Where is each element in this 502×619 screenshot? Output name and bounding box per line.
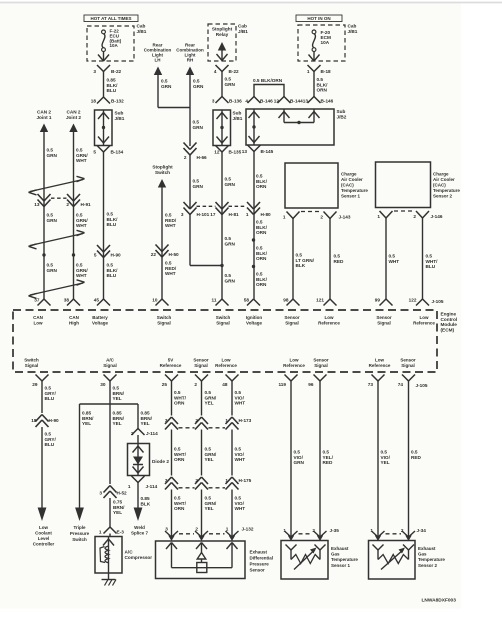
svg-text:H-90: H-90 [111, 252, 122, 257]
svg-text:B-132: B-132 [111, 99, 124, 104]
svg-text:J/B1: J/B1 [233, 116, 243, 121]
svg-text:1: 1 [283, 528, 286, 533]
svg-text:J/B1: J/B1 [348, 29, 358, 34]
svg-text:1: 1 [307, 69, 310, 74]
svg-text:5: 5 [94, 252, 97, 257]
svg-text:25: 25 [162, 382, 168, 387]
svg-text:J/B1: J/B1 [115, 116, 125, 121]
svg-text:GRN: GRN [294, 460, 305, 465]
svg-text:BLU: BLU [107, 88, 117, 93]
svg-text:Temperature: Temperature [341, 188, 368, 193]
svg-text:B-146: B-146 [260, 99, 273, 104]
svg-text:Reference: Reference [318, 320, 340, 325]
svg-text:Temperature: Temperature [418, 557, 445, 562]
svg-text:H-91: H-91 [81, 202, 92, 207]
svg-text:Gas: Gas [418, 552, 427, 557]
svg-text:HOT AT ALL TIMES: HOT AT ALL TIMES [91, 16, 132, 21]
svg-text:Voltage: Voltage [92, 320, 108, 325]
svg-text:Joint 2: Joint 2 [66, 115, 81, 120]
svg-text:J/B1: J/B1 [137, 29, 147, 34]
svg-text:Air Cooler: Air Cooler [341, 177, 363, 182]
svg-text:GRN: GRN [193, 184, 204, 189]
svg-text:Low: Low [39, 525, 48, 530]
svg-text:GRN: GRN [47, 153, 58, 158]
svg-text:BLK: BLK [141, 501, 151, 506]
svg-text:Sensor: Sensor [250, 567, 266, 572]
svg-text:29: 29 [32, 382, 38, 387]
svg-text:3: 3 [181, 212, 184, 217]
svg-text:Charge: Charge [341, 172, 357, 177]
svg-text:ORN: ORN [174, 506, 185, 511]
svg-text:1: 1 [225, 478, 228, 483]
svg-text:1: 1 [377, 214, 380, 219]
svg-text:38: 38 [64, 297, 70, 302]
svg-text:GRN: GRN [225, 82, 236, 87]
svg-text:1: 1 [128, 484, 131, 489]
svg-text:2: 2 [195, 527, 198, 532]
svg-text:Exhaust: Exhaust [331, 546, 349, 551]
svg-text:WHT: WHT [76, 273, 87, 278]
svg-text:ORN: ORN [256, 282, 267, 287]
svg-text:YEL: YEL [205, 401, 214, 406]
svg-text:J-105: J-105 [432, 299, 444, 304]
svg-text:3: 3 [212, 99, 215, 104]
svg-text:Relay: Relay [216, 32, 229, 37]
svg-text:YEL: YEL [381, 460, 390, 465]
svg-text:Controller: Controller [33, 542, 55, 547]
svg-text:GRN: GRN [193, 84, 204, 89]
svg-text:37: 37 [34, 297, 40, 302]
svg-text:18: 18 [31, 418, 37, 423]
svg-text:1: 1 [99, 530, 102, 535]
svg-text:J/B2: J/B2 [337, 114, 347, 119]
svg-text:1: 1 [370, 528, 373, 533]
svg-text:Sensor 1: Sensor 1 [331, 563, 351, 568]
svg-text:J-114: J-114 [146, 431, 158, 436]
svg-text:Low: Low [34, 320, 43, 325]
svg-text:45: 45 [94, 297, 100, 302]
svg-text:30: 30 [100, 382, 106, 387]
svg-text:H-66: H-66 [197, 155, 208, 160]
svg-text:Sensor 1: Sensor 1 [341, 194, 361, 199]
svg-text:10: 10 [152, 297, 158, 302]
svg-text:Signal: Signal [194, 363, 208, 368]
svg-text:YEL: YEL [205, 506, 214, 511]
svg-text:YEL: YEL [82, 421, 91, 426]
svg-text:Triple: Triple [73, 525, 86, 530]
svg-text:ORN: ORN [174, 401, 185, 406]
svg-text:96: 96 [308, 382, 314, 387]
svg-text:LH: LH [155, 58, 161, 63]
svg-text:58: 58 [244, 297, 250, 302]
svg-text:Exhaust: Exhaust [250, 550, 268, 555]
svg-text:YEL: YEL [205, 457, 214, 462]
svg-text:B-136: B-136 [229, 99, 242, 104]
svg-text:Air Cooler: Air Cooler [433, 177, 455, 182]
svg-text:Signal: Signal [157, 320, 171, 325]
svg-text:LNWA8DXF003: LNWA8DXF003 [422, 598, 457, 604]
svg-text:B-134: B-134 [111, 149, 124, 154]
svg-text:(ECM): (ECM) [441, 327, 455, 332]
svg-text:122: 122 [409, 297, 417, 302]
svg-text:YEL: YEL [113, 510, 122, 515]
svg-text:2: 2 [131, 431, 134, 436]
svg-text:J-105: J-105 [416, 383, 428, 388]
svg-text:WHT: WHT [76, 223, 87, 228]
svg-text:3: 3 [93, 69, 96, 74]
svg-text:Voltage: Voltage [246, 320, 262, 325]
svg-text:13: 13 [242, 149, 248, 154]
svg-text:0.5 BLK/ORN: 0.5 BLK/ORN [253, 78, 283, 83]
svg-text:22: 22 [151, 252, 157, 257]
svg-text:Level: Level [38, 536, 50, 541]
svg-text:BLU: BLU [45, 442, 55, 447]
svg-text:48: 48 [222, 382, 228, 387]
svg-text:RED: RED [323, 460, 334, 465]
svg-text:1: 1 [226, 527, 229, 532]
svg-text:BLU: BLU [107, 273, 117, 278]
svg-text:YEL: YEL [113, 421, 122, 426]
svg-text:2: 2 [66, 202, 69, 207]
svg-text:Signal: Signal [103, 363, 117, 368]
svg-text:ORN: ORN [174, 457, 185, 462]
svg-text:B-146: B-146 [321, 99, 334, 104]
svg-text:2: 2 [401, 528, 404, 533]
svg-text:2: 2 [184, 155, 187, 160]
svg-text:J-132: J-132 [242, 527, 254, 532]
svg-text:Charge: Charge [433, 172, 449, 177]
svg-text:Sensor 2: Sensor 2 [418, 563, 438, 568]
svg-text:WHT: WHT [165, 223, 176, 228]
svg-text:Signal: Signal [25, 363, 39, 368]
svg-text:J-114: J-114 [146, 484, 158, 489]
svg-text:13: 13 [303, 99, 309, 104]
svg-text:Joint 1: Joint 1 [36, 115, 51, 120]
svg-text:Signal: Signal [216, 320, 230, 325]
svg-text:Reference: Reference [413, 320, 435, 325]
svg-text:J-35: J-35 [330, 528, 340, 533]
svg-text:ORN: ORN [256, 230, 267, 235]
svg-text:Splice 7: Splice 7 [131, 531, 149, 536]
svg-text:HOT IN ON: HOT IN ON [307, 16, 330, 21]
svg-text:98: 98 [283, 297, 289, 302]
svg-text:WHT: WHT [235, 401, 246, 406]
svg-text:18: 18 [91, 99, 97, 104]
svg-text:4: 4 [214, 69, 217, 74]
svg-text:YEL: YEL [113, 396, 122, 401]
svg-text:Exhaust: Exhaust [418, 546, 436, 551]
svg-text:ORN: ORN [317, 88, 328, 93]
svg-text:Reference: Reference [369, 363, 391, 368]
svg-text:Reference: Reference [160, 363, 182, 368]
svg-text:GRN: GRN [225, 278, 236, 283]
svg-text:12: 12 [274, 99, 280, 104]
svg-text:E-3: E-3 [117, 530, 125, 535]
svg-text:Signal: Signal [314, 363, 328, 368]
svg-text:Pressure: Pressure [250, 562, 270, 567]
svg-text:10A: 10A [110, 43, 119, 48]
svg-text:H-101: H-101 [197, 212, 210, 217]
svg-text:Sensor 2: Sensor 2 [433, 194, 453, 199]
svg-text:Reference: Reference [283, 363, 305, 368]
svg-text:(CAC): (CAC) [433, 183, 446, 188]
svg-text:ORN: ORN [256, 184, 267, 189]
svg-text:5: 5 [93, 149, 96, 154]
svg-text:Switch: Switch [72, 537, 87, 542]
svg-text:GRN: GRN [225, 241, 236, 246]
svg-text:Diode 2: Diode 2 [152, 459, 169, 464]
svg-text:3: 3 [99, 491, 102, 496]
svg-text:Signal: Signal [377, 320, 391, 325]
svg-text:B-18: B-18 [321, 69, 332, 74]
svg-text:2: 2 [195, 478, 198, 483]
svg-text:GRN: GRN [193, 125, 204, 130]
svg-text:RH: RH [187, 58, 194, 63]
svg-text:99: 99 [375, 297, 381, 302]
svg-text:B-22: B-22 [111, 69, 122, 74]
svg-text:GRN: GRN [47, 268, 58, 273]
svg-text:Compressor: Compressor [125, 555, 153, 560]
svg-text:GRN: GRN [47, 218, 58, 223]
svg-text:10A: 10A [321, 40, 330, 45]
svg-text:WHT: WHT [389, 259, 400, 264]
svg-text:WHT: WHT [235, 457, 246, 462]
svg-text:Reference: Reference [215, 363, 237, 368]
svg-text:2: 2 [320, 215, 323, 220]
svg-text:Signal: Signal [401, 363, 415, 368]
svg-text:Weld: Weld [134, 525, 145, 530]
svg-text:BLU: BLU [426, 264, 436, 269]
svg-text:2: 2 [413, 214, 416, 219]
svg-text:B-22: B-22 [229, 69, 240, 74]
svg-text:3: 3 [165, 418, 168, 423]
svg-text:H-175: H-175 [239, 478, 252, 483]
svg-text:1: 1 [246, 212, 249, 217]
svg-text:17: 17 [210, 212, 216, 217]
svg-text:13: 13 [34, 202, 40, 207]
svg-text:J-143: J-143 [339, 215, 351, 220]
svg-text:Signal: Signal [285, 320, 299, 325]
svg-text:WHT: WHT [165, 271, 176, 276]
svg-text:3: 3 [165, 478, 168, 483]
svg-text:121: 121 [316, 297, 324, 302]
svg-text:B-145: B-145 [261, 149, 274, 154]
svg-text:Differential: Differential [250, 556, 274, 561]
svg-text:1: 1 [283, 215, 286, 220]
svg-text:H-90: H-90 [49, 418, 60, 423]
svg-text:YEL: YEL [141, 421, 150, 426]
svg-text:RED: RED [411, 455, 422, 460]
svg-text:Gas: Gas [331, 552, 340, 557]
svg-text:4: 4 [245, 99, 248, 104]
svg-text:H-173: H-173 [239, 418, 252, 423]
svg-text:Switch: Switch [155, 170, 170, 175]
svg-text:Pressure: Pressure [70, 531, 90, 536]
svg-text:ORN: ORN [256, 256, 267, 261]
svg-text:Coolant: Coolant [35, 531, 52, 536]
svg-text:11: 11 [212, 297, 217, 302]
svg-text:B-144: B-144 [290, 99, 303, 104]
svg-text:H-52: H-52 [117, 491, 128, 496]
svg-text:Temperature: Temperature [433, 188, 460, 193]
svg-text:12: 12 [214, 149, 220, 154]
svg-text:119: 119 [278, 382, 286, 387]
svg-text:H-81: H-81 [229, 212, 240, 217]
svg-text:GRN: GRN [161, 84, 172, 89]
svg-text:H-50: H-50 [169, 252, 180, 257]
svg-text:RED: RED [334, 259, 345, 264]
svg-text:1: 1 [225, 418, 228, 423]
svg-text:BLU: BLU [45, 396, 55, 401]
svg-text:J/B1: J/B1 [238, 29, 248, 34]
svg-text:(CAC): (CAC) [341, 183, 354, 188]
svg-text:2: 2 [312, 528, 315, 533]
svg-text:3: 3 [165, 527, 168, 532]
svg-text:Temperature: Temperature [331, 557, 358, 562]
svg-text:2: 2 [195, 418, 198, 423]
svg-text:WHT: WHT [76, 158, 87, 163]
svg-text:BLU: BLU [107, 222, 117, 227]
svg-text:B-135: B-135 [229, 149, 242, 154]
svg-text:High: High [69, 320, 79, 325]
svg-text:J-34: J-34 [417, 528, 427, 533]
svg-text:74: 74 [398, 382, 404, 387]
svg-text:H-80: H-80 [261, 212, 272, 217]
svg-text:73: 73 [368, 382, 374, 387]
svg-text:BLK: BLK [296, 263, 306, 268]
svg-text:2: 2 [194, 382, 197, 387]
svg-text:J-146: J-146 [431, 214, 443, 219]
svg-text:WHT: WHT [235, 506, 246, 511]
svg-text:GRN: GRN [225, 182, 236, 187]
